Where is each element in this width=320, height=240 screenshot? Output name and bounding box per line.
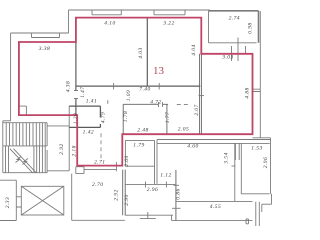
- svg-text:1.12: 1.12: [160, 173, 171, 179]
- svg-text:7.40: 7.40: [139, 86, 150, 93]
- svg-text:2.96: 2.96: [147, 187, 158, 193]
- svg-text:4.10: 4.10: [104, 20, 115, 27]
- svg-text:1.53: 1.53: [251, 145, 262, 151]
- svg-text:1.41: 1.41: [86, 98, 97, 105]
- svg-text:2.07: 2.07: [194, 104, 200, 115]
- svg-text:2.48: 2.48: [137, 126, 148, 133]
- svg-text:2.33: 2.33: [5, 197, 11, 208]
- svg-text:2.60: 2.60: [124, 155, 130, 166]
- svg-text:1.28: 1.28: [73, 113, 79, 124]
- svg-text:4.55: 4.55: [210, 203, 221, 210]
- svg-text:2.05: 2.05: [178, 127, 189, 133]
- svg-text:1.77: 1.77: [165, 112, 171, 123]
- svg-text:3.54: 3.54: [223, 152, 230, 164]
- svg-text:2.74: 2.74: [229, 15, 240, 22]
- svg-text:4.04: 4.04: [190, 44, 197, 55]
- svg-text:3.38: 3.38: [38, 46, 50, 52]
- svg-text:1.09: 1.09: [126, 90, 132, 101]
- svg-text:13: 13: [153, 65, 165, 77]
- svg-text:1.47: 1.47: [79, 87, 86, 98]
- svg-text:4.88: 4.88: [243, 87, 250, 98]
- svg-text:2.90: 2.90: [124, 194, 130, 205]
- svg-text:2.92: 2.92: [114, 189, 120, 200]
- svg-text:0.86: 0.86: [176, 188, 182, 199]
- svg-text:4.60: 4.60: [187, 143, 198, 150]
- svg-text:4.79: 4.79: [100, 112, 107, 123]
- svg-text:4.38: 4.38: [65, 81, 72, 92]
- svg-text:2.18: 2.18: [72, 145, 78, 156]
- svg-text:2.71: 2.71: [94, 159, 105, 165]
- svg-text:1.79: 1.79: [133, 142, 144, 148]
- svg-text:2.92: 2.92: [59, 143, 65, 154]
- svg-text:0.98: 0.98: [248, 22, 254, 33]
- svg-text:4.72: 4.72: [150, 99, 161, 106]
- svg-text:2.70: 2.70: [92, 182, 103, 188]
- svg-text:3.22: 3.22: [162, 21, 174, 27]
- svg-text:4.03: 4.03: [137, 47, 144, 58]
- svg-text:1.42: 1.42: [83, 129, 94, 136]
- svg-text:3.03: 3.03: [221, 55, 233, 61]
- svg-text:2.96: 2.96: [263, 157, 269, 168]
- svg-text:1.78: 1.78: [123, 111, 129, 122]
